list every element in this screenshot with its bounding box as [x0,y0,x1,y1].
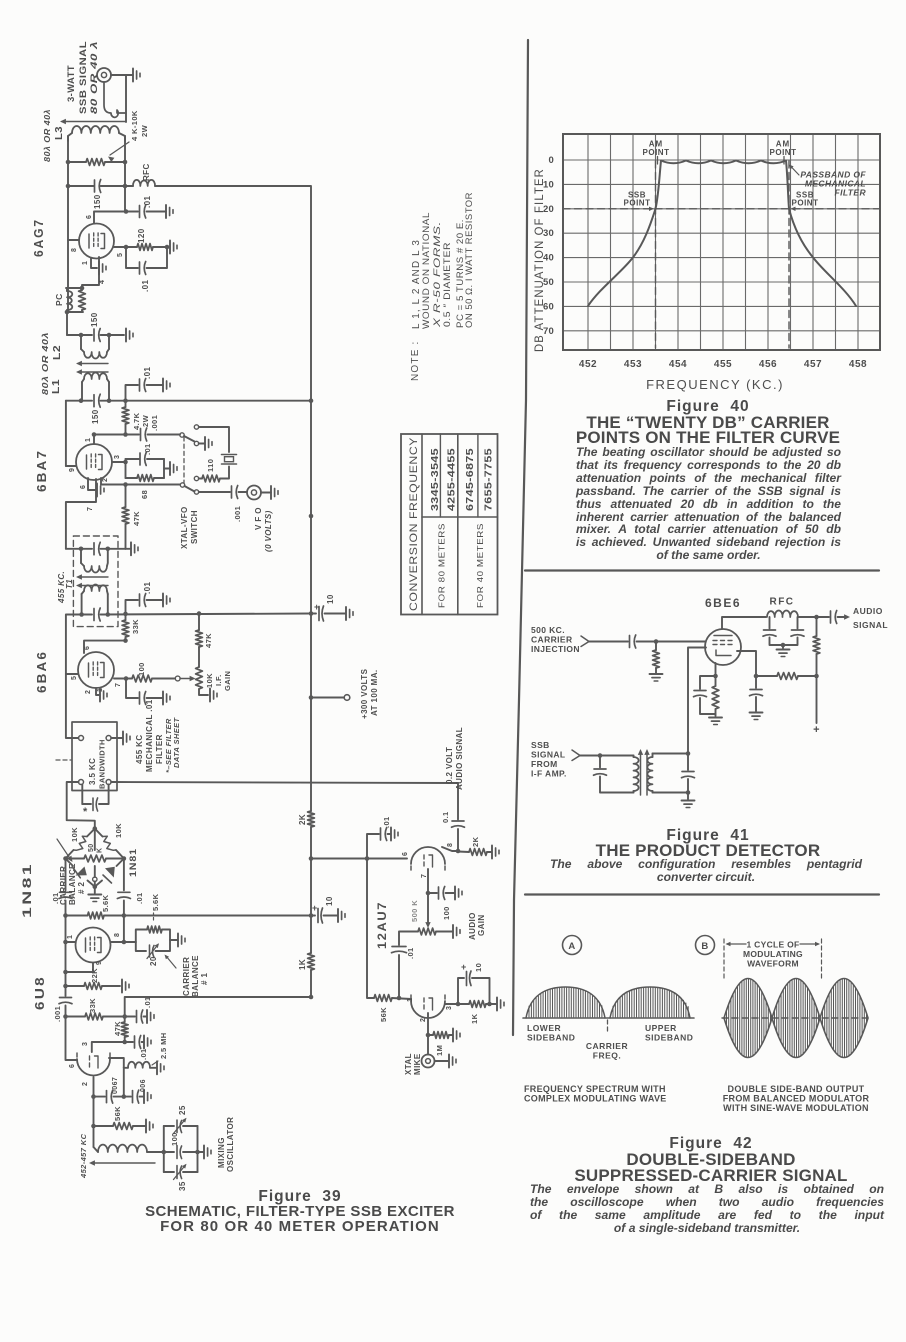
label 150 [90,312,99,327]
svg-text:FROM: FROM [531,759,558,769]
label L3 [54,126,65,140]
capacitor input [630,635,636,648]
pin 9 lead [66,466,76,472]
label CARRIER [531,635,573,645]
svg-text:GAIN: GAIN [477,914,486,936]
svg-text:6: 6 [84,646,91,650]
label .001 [233,506,242,522]
wiper arrow [180,676,196,681]
label SSB POINT right [791,191,819,212]
ground [210,689,217,702]
pin 8 lead [68,239,79,241]
wire [66,614,92,616]
grid lead [688,648,706,754]
wire [67,782,95,829]
ground [709,718,722,725]
pointer arrow [108,142,129,162]
svg-text:6: 6 [86,215,93,219]
svg-text:6: 6 [402,852,409,856]
wire [220,467,229,479]
label +300 VOLTS [360,668,369,719]
label 56K [379,1007,388,1022]
label .0067 [112,1077,119,1094]
svg-text:4.7K: 4.7K [132,412,141,430]
label I-F AMP. [531,769,567,779]
svg-text:33K: 33K [88,998,97,1013]
wire [199,689,208,695]
node [66,184,128,189]
label 2K [471,836,480,847]
capacitor +10 [458,971,490,1004]
svg-text:6: 6 [69,1064,76,1068]
resistor 10K left [74,836,88,850]
svg-text:110: 110 [206,459,215,472]
label FREQ. [593,1051,621,1061]
pin label 5 [117,253,124,257]
label 150 [93,194,102,209]
x label 457 [804,359,822,370]
capacitor 150 tank [67,329,124,342]
svg-text:47K: 47K [132,511,141,526]
svg-text:20: 20 [149,956,158,966]
label 0.1 [441,811,450,823]
label AT 100 MA. [370,669,379,716]
label circle B [696,936,715,955]
svg-text:25: 25 [178,1105,187,1115]
label 1N81 left [20,862,34,918]
resistor 47K [122,485,129,549]
wire [125,75,127,122]
svg-text:7: 7 [421,874,428,878]
label 10K [114,823,123,838]
resistor 68 [126,475,165,482]
label 10K [205,673,214,688]
wire [427,1035,429,1055]
rfc cap left [763,617,783,645]
svg-text:80λ OR 40λ: 80λ OR 40λ [40,332,50,395]
label VFO [254,507,263,530]
svg-text:1: 1 [82,261,89,265]
wire [653,751,691,756]
ground [750,713,763,720]
svg-text:500 K: 500 K [410,900,419,922]
label PASSBAND [789,165,866,198]
svg-text:AUDIO SIGNAL: AUDIO SIGNAL [455,727,464,790]
svg-text:MIXING: MIXING [217,1137,226,1168]
node [79,398,314,403]
svg-text:33K: 33K [131,619,140,634]
diode 1N81 left [73,867,87,878]
x label 454 [669,359,687,370]
svg-text:+: + [312,903,318,913]
ground [338,909,345,922]
svg-text:2K: 2K [471,836,480,847]
label 100 [442,906,451,920]
capacitor T1 pri [94,542,100,555]
label BALANCE [191,955,200,997]
wire [239,491,247,493]
pin label 8 [447,843,454,847]
label GAIN [223,671,232,691]
wire B+ rail [310,401,312,811]
wire [122,916,127,945]
x label 452 [579,359,597,370]
svg-text:454: 454 [669,359,687,370]
dimension ticks [724,939,822,981]
label MODULATING [743,949,803,959]
node [63,913,313,918]
x label 458 [849,359,867,370]
tube 6BA6 [78,652,114,688]
label 47K [113,1021,122,1036]
svg-text:3: 3 [82,1042,89,1046]
wire [91,1077,96,1099]
tube 12AU7 lower [411,994,445,1018]
label + [312,903,318,913]
resistor 56K [94,1123,146,1130]
inductor L3 [68,126,125,141]
label AUDIO [468,912,477,940]
label .01 [51,892,60,904]
svg-text:DB ATTENUATION OF FILTER: DB ATTENUATION OF FILTER [534,168,546,352]
note line 1 [411,239,422,329]
wire [426,1013,431,1037]
pin label 8 [71,248,78,252]
svg-text:4: 4 [99,280,106,284]
svg-text:+: + [314,602,320,612]
wire [722,617,766,629]
ground [157,1061,164,1074]
rfc cap right [783,617,804,645]
svg-text:.01: .01 [143,443,152,455]
connector VFO [247,486,261,500]
wire [84,641,126,653]
Figure 40 caption [528,398,888,416]
capacitor +10 [319,606,324,621]
capacitor .01 [140,205,146,218]
switch link dashed [183,437,185,483]
table mid line [457,434,459,615]
label 10 [325,896,334,906]
svg-text:COMPLEX MODULATING WAVE: COMPLEX MODULATING WAVE [524,1094,667,1104]
resistor 22K [63,983,120,990]
cell 6745-6875 [465,448,476,511]
node [309,514,314,861]
label + [461,962,467,972]
label 33K [131,619,140,634]
caption A2 [524,1094,667,1104]
svg-text:455 KC: 455 KC [135,734,144,764]
svg-text:.01: .01 [382,816,391,828]
svg-text:DATA SHEET: DATA SHEET [172,716,181,768]
resistor 2K out [458,849,491,856]
label 47K [204,633,213,648]
oscillator coil [94,1145,164,1152]
wire [311,856,407,861]
capacitor .01 [125,1010,146,1023]
Figure 39 caption [120,1188,480,1206]
svg-text:80 OR 40 λ: 80 OR 40 λ [89,41,100,114]
label SIGNAL [531,750,566,760]
svg-text:L2: L2 [52,345,63,360]
svg-text:L3: L3 [54,126,65,140]
svg-text:452-457 KC: 452-457 KC [79,1133,88,1179]
resistor 5.6K cb [136,926,170,942]
pin 2 lead [101,478,109,485]
svg-text:I-F AMP.: I-F AMP. [531,769,567,779]
label 3-WATT [66,65,77,102]
dimension arrows [726,942,821,946]
pin 5 lead [66,674,78,680]
pin 4 lead [82,257,99,288]
svg-text:22K: 22K [90,968,99,983]
svg-text:3: 3 [114,455,121,459]
svg-text:12AU7: 12AU7 [375,901,389,949]
svg-text:POINT: POINT [770,148,797,157]
label CARRIER [59,866,68,905]
svg-text:0.1: 0.1 [441,811,450,823]
wire B+ rail [310,827,312,953]
wire [199,427,229,452]
wire [66,548,92,550]
svg-text:.01: .01 [143,367,152,379]
capacitor output [831,611,837,624]
svg-text:7: 7 [115,683,122,687]
label 2W [141,414,150,427]
wire [589,641,628,643]
inductor T1 secondary [82,585,108,615]
capacitor .01 screen [126,247,167,275]
svg-text:L1: L1 [51,379,62,394]
caption B1 [728,1084,865,1094]
svg-text:10: 10 [325,896,334,906]
wire [325,613,346,615]
svg-text:3-WATT: 3-WATT [66,65,77,102]
svg-text:1: 1 [407,998,414,1002]
svg-text:WITH SINE-WAVE MODULATION: WITH SINE-WAVE MODULATION [723,1103,869,1113]
label LOWER [527,1023,561,1033]
table frame [401,434,498,615]
y label 70 [543,326,554,337]
svg-text:CARRIER: CARRIER [182,957,191,996]
svg-text:7: 7 [87,507,94,511]
svg-text:458: 458 [849,359,867,370]
upper sideband arch [610,987,690,1018]
label 35 [178,1181,187,1191]
switch contact [194,425,198,446]
svg-text:56K: 56K [379,1007,388,1022]
label 6BA6 [34,650,49,693]
inductor T1 primary [81,549,108,573]
ground [111,732,130,745]
svg-text:5.6K: 5.6K [151,893,160,911]
ring nodes [63,826,126,889]
svg-text:47K: 47K [113,1021,122,1036]
transformer primary [634,756,639,793]
svg-text:BALANCE: BALANCE [191,955,200,997]
rf choke RFC [125,180,155,186]
label SSB POINT left [624,191,654,212]
svg-text:3: 3 [446,1006,453,1010]
ground [163,379,170,392]
table header line [421,434,423,615]
pointer [165,955,177,969]
svg-text:8: 8 [71,248,78,252]
wire B+ rail [310,970,312,997]
rf choke RFC [767,610,798,617]
svg-text:500 KC.: 500 KC. [531,625,565,635]
ground [99,262,106,275]
resistor load [813,617,820,678]
node [66,160,128,165]
wire [399,932,418,946]
pin label 1 [82,261,89,265]
label .006 [140,1079,147,1092]
ground [682,801,695,808]
label .01 [143,443,152,455]
label 80λ OR 40λ [42,109,52,162]
capacitor pri [594,756,634,793]
label .01 [141,280,150,292]
capacitor .01 [126,594,164,614]
wire [92,1042,125,1052]
ground [133,69,140,82]
svg-text:1M: 1M [435,1045,444,1056]
y label 60 [543,301,554,312]
dashed pointer [56,759,71,761]
carrier tick [607,1020,609,1031]
svg-text:FILTER: FILTER [834,188,866,198]
svg-text:1 CYCLE OF: 1 CYCLE OF [746,940,799,950]
label 500 KC. [531,625,565,635]
label XTAL [404,1053,413,1075]
svg-text:4 K-10K: 4 K-10K [130,110,139,141]
svg-text:0.2 VOLT: 0.2 VOLT [445,747,454,784]
svg-text:CONVERSION FREQUENCY: CONVERSION FREQUENCY [408,437,420,611]
freq arrow [89,1160,155,1165]
ground [126,329,133,342]
svg-text:5: 5 [117,253,124,257]
resistor 56K [374,995,411,1002]
svg-text:FREQUENCY (KC.): FREQUENCY (KC.) [646,377,784,392]
pin label 6 [86,215,93,219]
label 22K [90,968,99,983]
y label 50 [543,277,554,288]
label RFC [142,163,151,181]
wire [79,547,126,552]
ground [122,980,129,993]
svg-text:FOR 40 METERS: FOR 40 METERS [475,523,485,608]
pot 50K [66,855,124,862]
switch pole lower [180,483,194,492]
pin label 6 [69,1064,76,1068]
ground [166,205,173,218]
pin label 7 [421,874,428,878]
svg-text:6BA6: 6BA6 [34,650,49,693]
svg-text:8: 8 [447,843,454,847]
y label 30 [543,228,554,239]
y label 10 [543,179,554,190]
svg-text:10: 10 [326,594,335,604]
x label 453 [624,359,642,370]
svg-text:456: 456 [759,359,777,370]
label 10K [70,827,79,842]
svg-text:MIKE: MIKE [413,1053,422,1075]
pin 5 lead [114,245,137,250]
table row line 1 [439,434,441,517]
svg-text:.01: .01 [139,1048,148,1060]
capacitor [125,1036,143,1049]
svg-text:2: 2 [102,478,109,482]
pot wiper [93,829,97,887]
ground [777,643,790,657]
svg-text:2.5 MH: 2.5 MH [159,1032,168,1059]
label 2.5 MH [152,1032,168,1065]
svg-text:150: 150 [93,194,102,209]
screen lead [737,651,756,676]
label 6U8 [32,975,47,1010]
svg-text:MECHANICAL .01: MECHANICAL .01 [145,699,154,772]
note line 4 [442,242,453,327]
capacitor .01 [392,947,407,999]
label XTAL-VFO [180,506,189,549]
svg-text:56K: 56K [113,1106,122,1121]
svg-text:6BA7: 6BA7 [34,449,49,492]
cell 7655-7755 [484,448,495,511]
label + [813,724,820,736]
svg-text:150: 150 [90,312,99,327]
dsb envelope [724,979,868,1058]
svg-text:.001: .001 [53,1006,62,1022]
label .01 [139,1048,148,1060]
svg-text:WAVEFORM: WAVEFORM [747,959,799,969]
caption B2 [723,1094,870,1104]
svg-text:6: 6 [80,485,87,489]
label DATA SHEET [172,716,181,768]
svg-text:SSB SIGNAL: SSB SIGNAL [78,41,89,114]
ground [492,846,499,859]
label 4K-10K [130,110,139,141]
wire [65,916,67,997]
x axis title [646,377,784,392]
label .01 [406,947,415,959]
tube 6BE6 [705,629,741,665]
tube 6U8 pentode [76,928,111,963]
svg-text:POINT: POINT [624,199,651,208]
switch contact [194,476,198,494]
note line 2 [421,212,432,329]
svg-text:A: A [568,941,575,952]
svg-text:AUDIO: AUDIO [853,606,883,616]
label 455 KC [135,734,144,764]
wire [580,753,634,758]
svg-text:453: 453 [624,359,642,370]
ground [163,594,170,607]
svg-text:0: 0 [549,155,554,166]
svg-text:4255-4455: 4255-4455 [447,448,458,511]
tube 12AU7 upper [411,847,445,871]
output connector J1 [97,68,111,82]
capacitor .001 vfo [232,486,238,499]
label RFC [769,597,794,608]
pin 6 ground [80,478,104,497]
wire [426,869,431,895]
svg-text:2: 2 [420,1018,427,1022]
wire B+ feed [155,186,311,401]
audio arrow [838,614,851,619]
Figure 42 caption [528,1135,894,1153]
svg-text:9: 9 [96,961,103,965]
